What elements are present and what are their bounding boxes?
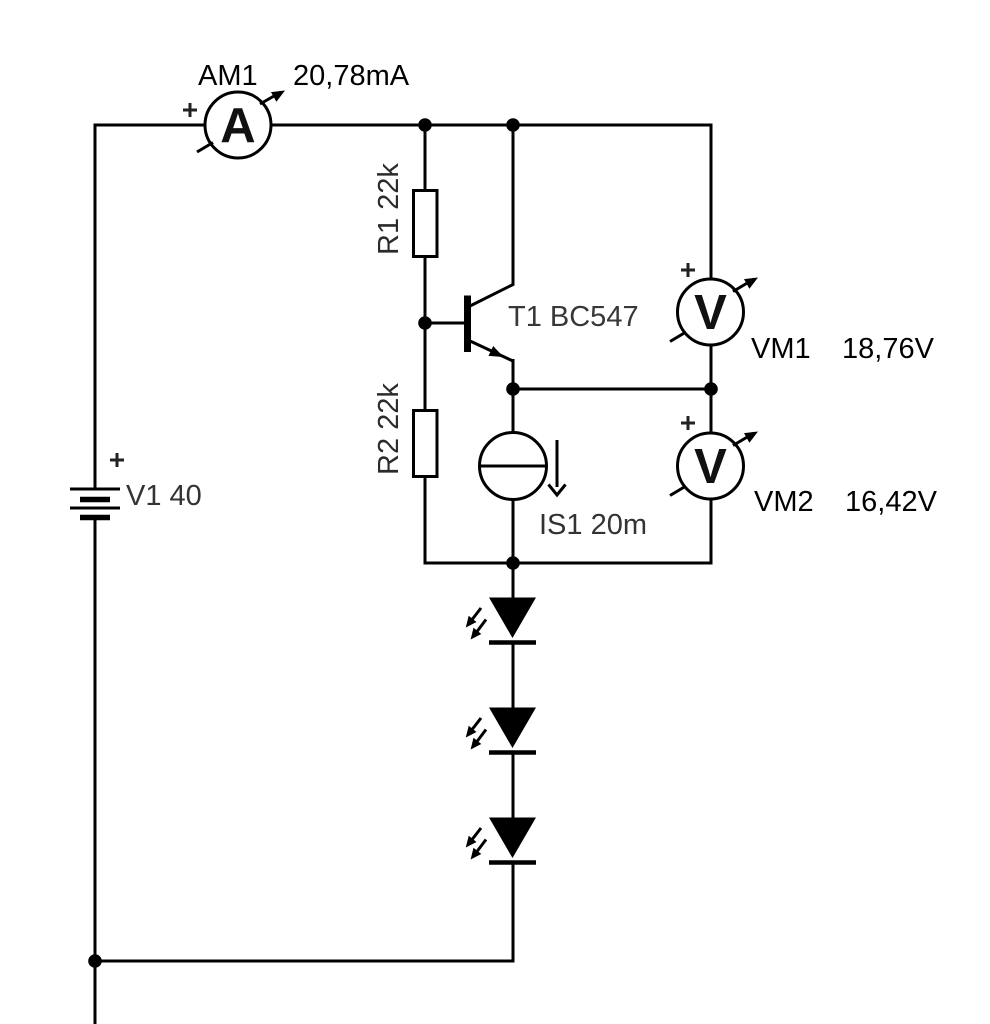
node IS1 / LED string junction — [506, 556, 520, 570]
svg-text:V: V — [694, 440, 727, 494]
wire LED1 to LED2 — [512, 641, 515, 710]
svg-text:V: V — [694, 286, 727, 340]
wire mid rail (emitter node to VM1/VM2 node) — [513, 388, 711, 391]
svg-text:T1 BC547: T1 BC547 — [508, 301, 639, 333]
node top rail / collector junction — [506, 118, 520, 132]
wire LED string feed — [512, 563, 515, 600]
wire top rail left of AM1 — [94, 124, 206, 127]
wire base connection — [425, 322, 465, 325]
node base junction — [418, 316, 432, 330]
wire R2 bottom to lower mid rail — [424, 475, 427, 565]
wire VM2 bottom to lower mid rail — [710, 497, 713, 565]
wire IS1 top feed — [512, 389, 515, 434]
wire top rail right of AM1 — [271, 124, 711, 127]
wire lower mid rail — [424, 562, 713, 565]
node VM1 / VM2 junction — [704, 382, 718, 396]
wire left vertical top (battery + to top rail) — [94, 124, 97, 490]
wire LED2 to LED3 — [512, 751, 515, 820]
resistor R2 — [414, 411, 438, 477]
node emitter / mid rail junction — [506, 382, 520, 396]
wire bottom rail — [94, 960, 514, 963]
wire R1 bottom to R2 top (through base node) — [424, 255, 427, 412]
svg-text:A: A — [220, 99, 255, 153]
voltmeter VM1 — [670, 263, 758, 345]
svg-text:V1 40: V1 40 — [126, 480, 202, 512]
svg-text:20,78mA: 20,78mA — [293, 60, 410, 92]
wire VM2 top feed — [710, 389, 713, 435]
transistor T1 — [468, 284, 515, 362]
wire VM1 bottom to mid rail — [710, 344, 713, 389]
svg-text:IS1 20m: IS1 20m — [539, 509, 647, 541]
svg-text:VM1: VM1 — [751, 333, 811, 365]
ammeter AM1 — [183, 91, 285, 159]
wire left vertical bottom (battery - to bottom rail) — [94, 518, 97, 961]
node top rail / R1 junction — [418, 118, 432, 132]
svg-text:R1 22k: R1 22k — [373, 163, 405, 255]
wire IS1 bottom to lower mid rail — [512, 498, 515, 565]
wire LED3 to bottom rail — [512, 861, 515, 963]
node bottom rail junction — [88, 954, 102, 968]
current source IS1 — [479, 433, 566, 500]
wire emitter vertical to mid rail — [512, 359, 515, 389]
svg-text:16,42V: 16,42V — [845, 486, 938, 518]
svg-text:VM2: VM2 — [754, 486, 814, 518]
svg-text:18,76V: 18,76V — [842, 333, 935, 365]
voltmeter VM2 — [670, 416, 758, 499]
battery V1 — [70, 453, 124, 518]
wire R1 top feed — [424, 125, 427, 192]
wire collector vertical — [512, 124, 515, 286]
wire VM1 top feed — [710, 124, 713, 281]
svg-text:R2 22k: R2 22k — [373, 383, 405, 475]
resistor R1 — [414, 191, 438, 257]
LED D1 — [466, 598, 536, 643]
svg-text:AM1: AM1 — [198, 60, 258, 92]
LED D2 — [466, 708, 536, 753]
LED D3 — [466, 818, 536, 863]
wire left vertical below bottom junction — [94, 961, 97, 1024]
